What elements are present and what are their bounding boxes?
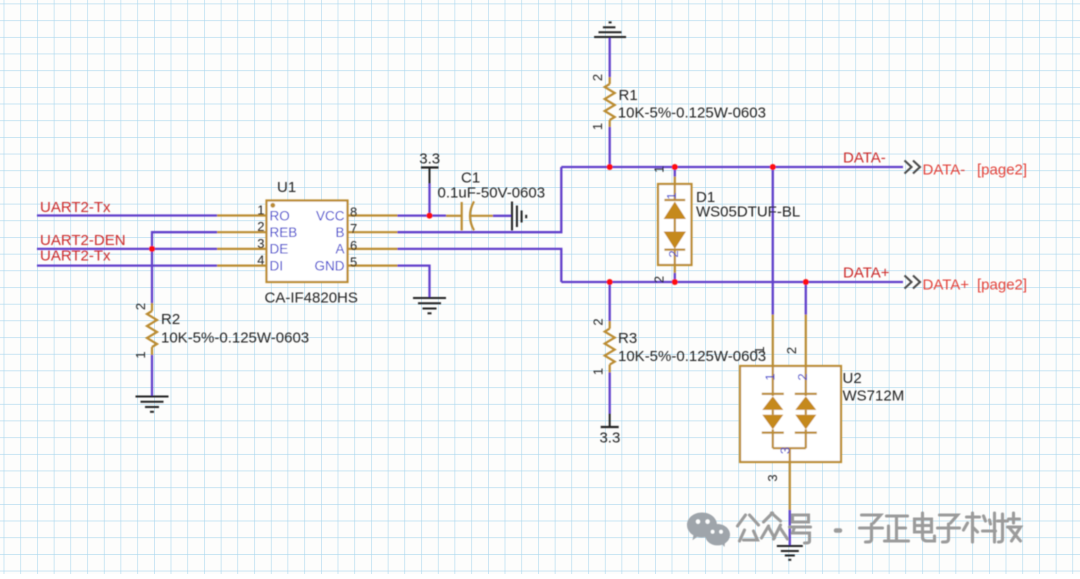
- svg-text:GND: GND: [315, 258, 345, 273]
- svg-text:3.3: 3.3: [419, 151, 440, 168]
- U1 pin number 7: [350, 221, 357, 236]
- R1 pin number 2: [590, 74, 605, 81]
- U1 pin number 1: [257, 203, 264, 218]
- svg-text:DE: DE: [270, 242, 289, 257]
- net label DATA-: [843, 150, 886, 167]
- R1 value label: [618, 105, 766, 122]
- wire VCC pin8 to C1: [398, 214, 447, 216]
- svg-text:2: 2: [133, 303, 148, 310]
- svg-text:CA-IF4820HS: CA-IF4820HS: [265, 290, 358, 307]
- svg-text:3: 3: [257, 236, 264, 251]
- netflag DATA- page2: [905, 161, 1028, 179]
- svg-text:10K-5%-0.125W-0603: 10K-5%-0.125W-0603: [161, 330, 309, 347]
- power 3.3 bottom R3: [599, 414, 620, 447]
- svg-text:3: 3: [765, 474, 780, 481]
- wire REB corner to R2: [152, 232, 217, 303]
- svg-text:DATA-: DATA-: [923, 162, 966, 179]
- svg-text:VCC: VCC: [316, 208, 345, 223]
- R1 pin number 1: [590, 123, 605, 130]
- svg-text:DATA+: DATA+: [843, 265, 890, 282]
- svg-text:UART2-Tx: UART2-Tx: [40, 199, 111, 216]
- U1 pin name DE: [270, 242, 289, 257]
- diode array U2 WS712M: [740, 315, 841, 511]
- U2 pin number 3: [765, 474, 780, 481]
- ground below U1 pin5: [413, 298, 446, 313]
- svg-text:DATA+: DATA+: [923, 277, 970, 294]
- U2 pin name 2: [795, 373, 810, 380]
- U2 pin number 2: [784, 347, 799, 354]
- wire R2 to ground: [151, 355, 153, 396]
- wire DATA- bus: [561, 166, 903, 168]
- svg-text:7: 7: [350, 221, 357, 236]
- wire DATA+ to R3: [609, 282, 611, 321]
- svg-text:UART2-Tx: UART2-Tx: [40, 248, 111, 265]
- R2 pin number 2: [133, 303, 148, 310]
- 子: [860, 515, 883, 542]
- svg-text:R3: R3: [618, 330, 637, 347]
- U1 pin name A: [335, 242, 344, 257]
- C1 refdes label: [461, 170, 480, 187]
- wire DATA- to U2 pin1: [772, 167, 774, 315]
- svg-text:DATA-: DATA-: [843, 150, 886, 167]
- net label UART2-DEN: [40, 232, 126, 249]
- svg-text:10K-5%-0.125W-0603: 10K-5%-0.125W-0603: [618, 348, 766, 365]
- wire A pin6 to DATA+: [398, 249, 562, 282]
- wire DATA- to D1 pin1: [674, 167, 676, 177]
- watermark wechat logo: [687, 513, 730, 548]
- resistor R3: [605, 321, 615, 373]
- svg-text:4: 4: [257, 253, 264, 268]
- U1 pin number 6: [350, 238, 357, 253]
- svg-text:WS712M: WS712M: [843, 388, 905, 405]
- resistor R1: [605, 77, 615, 127]
- wire R1 to DATA-: [609, 127, 611, 167]
- svg-text:1: 1: [763, 373, 778, 380]
- U1 pin number 8: [350, 205, 357, 220]
- R2 refdes label: [161, 311, 180, 328]
- D1 value label WS05DTUF-BL: [696, 204, 800, 221]
- wire UART2-DEN to U1 pin3: [37, 248, 217, 250]
- junction DATA+ D1: [672, 279, 678, 285]
- junction DEN node: [149, 246, 155, 252]
- ground below U2: [777, 546, 803, 560]
- svg-text:UART2-DEN: UART2-DEN: [40, 232, 126, 249]
- 众: [762, 513, 788, 539]
- svg-text:[page2]: [page2]: [977, 277, 1027, 294]
- R3 value label: [618, 348, 766, 365]
- wire UART2-Tx to U1 pin1: [37, 214, 217, 216]
- wire D1 pin2 to DATA+: [674, 273, 676, 282]
- R3 pin number 1: [591, 368, 606, 375]
- R2 value label: [161, 330, 309, 347]
- U1 pin name REB: [270, 225, 298, 240]
- svg-text:WS05DTUF-BL: WS05DTUF-BL: [696, 204, 800, 221]
- net label DATA+: [843, 265, 890, 282]
- IC U1 CA-IF4820HS: [217, 201, 398, 283]
- resistor R2: [147, 303, 157, 355]
- svg-text:2: 2: [590, 74, 605, 81]
- svg-text:1: 1: [664, 192, 679, 199]
- U1 value label CA-IF4820HS: [265, 290, 358, 307]
- svg-text:2: 2: [795, 373, 810, 380]
- U2 pin name 1: [763, 373, 778, 380]
- svg-text:R2: R2: [161, 311, 180, 328]
- dot: [836, 528, 840, 533]
- U2 pin number 1: [752, 346, 767, 353]
- svg-text:DI: DI: [270, 258, 284, 273]
- svg-text:2: 2: [257, 219, 264, 234]
- svg-text:0.1uF-50V-0603: 0.1uF-50V-0603: [438, 185, 546, 202]
- 公: [738, 515, 759, 541]
- wire U2 pin3 to ground: [789, 510, 791, 546]
- svg-text:U1: U1: [277, 179, 296, 196]
- wire DATA+ bus: [561, 281, 903, 283]
- D1 pin name 2: [666, 250, 681, 257]
- svg-text:REB: REB: [270, 225, 298, 240]
- junction VCC node: [427, 213, 433, 219]
- U1 pin number 4: [257, 253, 264, 268]
- power 3.3 top: [419, 151, 440, 184]
- junction DATA- R1: [607, 164, 613, 170]
- wire GND pin5: [398, 266, 430, 298]
- TVS diode D1 WS05DTUF-BL: [658, 177, 692, 274]
- ground above R1: [594, 22, 626, 37]
- D1 pin number 1: [652, 166, 667, 173]
- wire C1 to ground: [493, 215, 512, 217]
- 科: [964, 513, 996, 542]
- U1 pin number 2: [257, 219, 264, 234]
- junction DATA+ U2: [803, 279, 809, 285]
- wire B pin7 to DATA-: [398, 167, 562, 232]
- junction DATA- U2: [770, 164, 776, 170]
- U2 pin name 3: [777, 447, 792, 454]
- svg-text:2: 2: [666, 250, 681, 257]
- 正: [885, 516, 909, 541]
- svg-text:8: 8: [350, 205, 357, 220]
- U1 pin name DI: [270, 258, 284, 273]
- D1 refdes label: [696, 189, 715, 206]
- net label UART2-Tx pin4: [40, 248, 111, 265]
- net label UART2-Tx pin1: [40, 199, 111, 216]
- wire DATA+ to U2 pin2: [805, 282, 807, 315]
- C1 value label: [438, 185, 546, 202]
- wire R3 to 3.3: [609, 373, 611, 414]
- U2 value label WS712M: [843, 388, 905, 405]
- R2 pin number 1: [133, 351, 148, 358]
- watermark text 公众号·子正电子科技: [738, 513, 1021, 543]
- svg-text:1: 1: [133, 351, 148, 358]
- 号: [790, 515, 811, 543]
- svg-text:1: 1: [652, 166, 667, 173]
- U1 pin name VCC: [316, 208, 345, 223]
- ground right of C1: [512, 202, 526, 231]
- D1 pin number 2: [652, 276, 667, 283]
- capacitor C1: [446, 201, 493, 230]
- svg-text:1: 1: [257, 203, 264, 218]
- svg-text:2: 2: [784, 347, 799, 354]
- wire 3.3 rail to pin8: [428, 184, 430, 216]
- R3 pin number 2: [591, 318, 606, 325]
- wire UART2-Tx to U1 pin4: [37, 264, 217, 266]
- svg-text:5: 5: [350, 255, 357, 270]
- wire ground to R1: [609, 37, 611, 77]
- 电: [915, 513, 935, 541]
- svg-text:3: 3: [777, 447, 792, 454]
- ground below R2: [136, 397, 169, 412]
- svg-text:1: 1: [591, 368, 606, 375]
- svg-text:RO: RO: [270, 208, 290, 223]
- U1 refdes label: [277, 179, 296, 196]
- 技: [998, 513, 1021, 542]
- svg-text:R1: R1: [619, 87, 638, 104]
- U1 pin number 3: [257, 236, 264, 251]
- svg-text:6: 6: [350, 238, 357, 253]
- svg-text:2: 2: [652, 276, 667, 283]
- svg-text:B: B: [335, 225, 344, 240]
- 子: [938, 515, 960, 542]
- svg-text:U2: U2: [843, 370, 862, 387]
- netflag DATA+ page2: [905, 276, 1028, 294]
- junction DATA+ R3: [607, 279, 613, 285]
- svg-text:A: A: [335, 242, 344, 257]
- R3 refdes label: [618, 330, 637, 347]
- svg-text:3.3: 3.3: [599, 430, 620, 447]
- D1 pin name 1: [664, 192, 679, 199]
- U2 refdes label: [843, 370, 862, 387]
- svg-text:1: 1: [590, 123, 605, 130]
- svg-text:10K-5%-0.125W-0603: 10K-5%-0.125W-0603: [618, 105, 766, 122]
- U1 pin name RO: [270, 208, 290, 223]
- svg-text:[page2]: [page2]: [977, 162, 1027, 179]
- junction DATA- D1: [672, 164, 678, 170]
- U1 pin number 5: [350, 255, 357, 270]
- R1 refdes label: [619, 87, 638, 104]
- U1 pin name GND: [315, 258, 345, 273]
- svg-text:1: 1: [752, 346, 767, 353]
- svg-text:2: 2: [591, 318, 606, 325]
- U1 pin name B: [335, 225, 344, 240]
